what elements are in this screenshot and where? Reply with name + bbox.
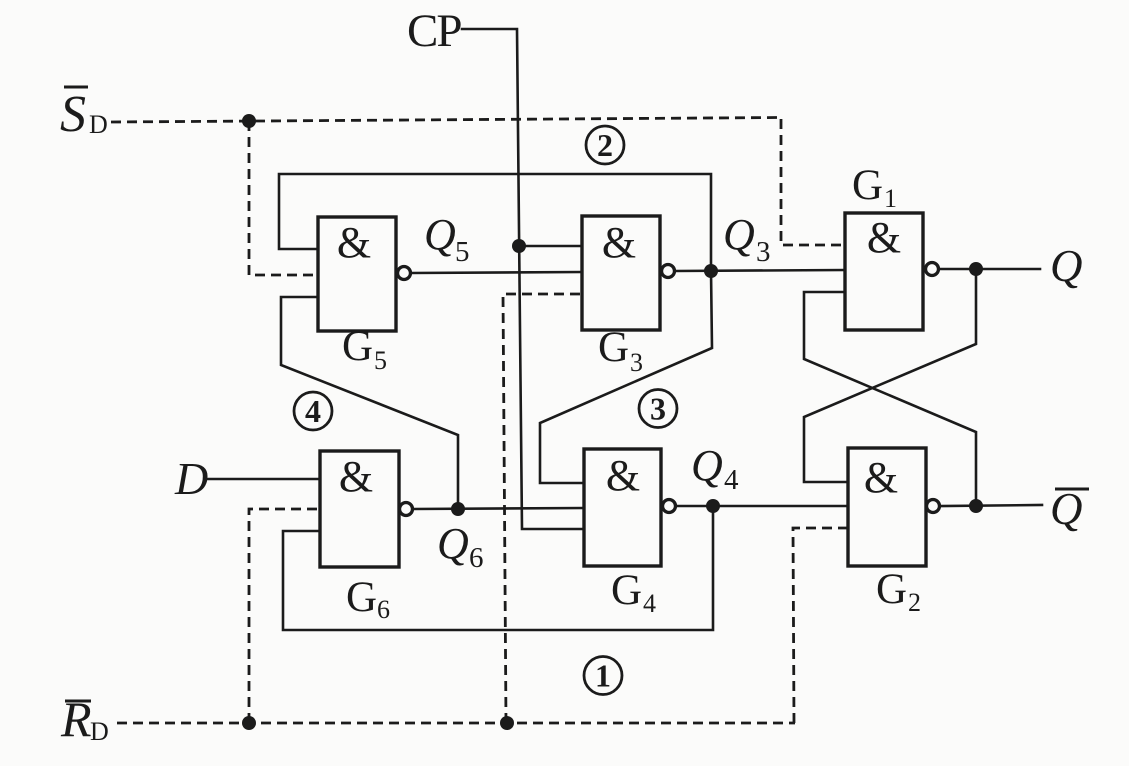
svg-text:CP: CP [407,5,461,57]
svg-text:3: 3 [650,391,666,427]
svg-text:2: 2 [597,127,613,163]
svg-text:R: R [60,691,92,747]
svg-text:&: & [602,218,636,267]
svg-text:2: 2 [908,588,921,617]
svg-text:Q: Q [1050,241,1083,291]
svg-text:Q: Q [1050,484,1083,534]
svg-text:&: & [867,213,901,262]
svg-text:1: 1 [884,184,897,213]
svg-text:4: 4 [305,393,321,429]
svg-text:Q: Q [723,210,755,259]
svg-text:6: 6 [469,542,484,574]
svg-text:Q: Q [437,519,469,568]
svg-text:D: D [90,717,109,746]
svg-text:G: G [598,324,629,371]
svg-text:G: G [876,566,907,613]
svg-text:S: S [60,86,86,143]
svg-text:&: & [337,218,371,267]
svg-text:G: G [611,567,642,614]
svg-text:3: 3 [756,236,771,268]
svg-text:4: 4 [643,589,656,618]
svg-text:&: & [606,451,640,500]
svg-text:G: G [852,162,883,209]
svg-text:4: 4 [724,464,739,496]
svg-text:1: 1 [595,658,611,694]
svg-text:Q: Q [691,441,723,490]
svg-text:G: G [346,574,377,621]
svg-text:G: G [342,323,373,370]
svg-text:5: 5 [374,346,387,375]
svg-text:6: 6 [377,595,390,624]
svg-text:D: D [174,453,208,504]
svg-text:&: & [864,453,898,502]
svg-text:5: 5 [455,236,470,268]
svg-text:D: D [89,110,108,139]
svg-text:&: & [339,452,373,501]
svg-text:Q: Q [424,210,456,259]
svg-text:3: 3 [630,348,643,377]
